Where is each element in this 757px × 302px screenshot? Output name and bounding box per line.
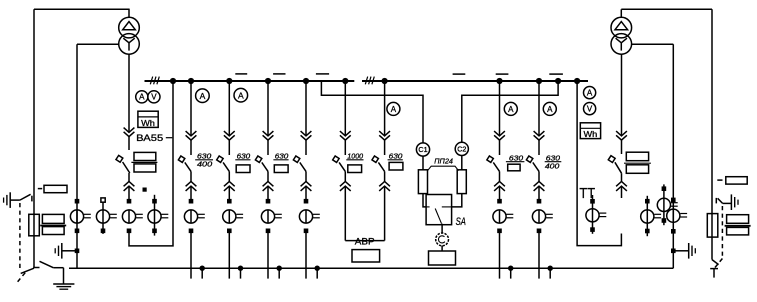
label feeder 1 630/400 [195,151,213,168]
wire feeder 3 from bus [267,81,269,136]
drawout contact top feeder 6 [379,131,390,140]
svg-text:630: 630 [389,151,404,160]
cable stub feeder 2 [238,266,243,279]
CT neutral left [70,199,90,233]
aux CT left 2 with test terminal [96,198,116,234]
wire neutral line left (x=77) [76,44,78,268]
wire feeder 7 lower stub [499,171,501,181]
wire feeder 1 to bottom bus [190,231,192,279]
voltmeter right incomer [584,103,596,115]
fuse counter C1 [416,143,429,156]
svg-text:С1: С1 [418,145,427,154]
wire bell to box [441,246,443,251]
ground left bottom [53,284,74,289]
wire feeder 7 from bus [499,81,501,136]
svg-text:A: A [508,105,514,114]
svg-text:A: A [391,105,397,114]
switch SA contacts [426,207,452,225]
svg-text:400: 400 [545,161,560,170]
bus B dot PP24 tap [555,78,561,84]
wire breaker BA55 gap [128,137,130,182]
wire feeder 8 to CT [538,186,540,201]
wire feeder 5 from bus [344,81,346,136]
wire tap bus B to C2 [462,81,558,142]
bus B dot feeder 8 [536,78,542,84]
wire feeder 1 upper stub [190,140,192,155]
bus A dot incomer return [170,78,176,84]
busbar section A [145,80,355,82]
drawout contact bottom feeder 5 [340,182,351,191]
terminal box middle [429,251,456,265]
fuse PP24 left [418,170,427,194]
aux CT right (metering) [586,195,606,234]
bus A dot feeder 1 [188,78,194,84]
svg-text:V: V [151,93,157,102]
svg-text:С2: С2 [457,145,466,154]
wire incomer right upper stub [621,140,623,154]
svg-text:A: A [200,91,206,101]
wire feeder 7 to CT [499,186,501,201]
CT feeder 1 [184,199,204,233]
wire feeder 8 from bus [538,81,540,136]
wire C1 to fuse [422,156,424,170]
disconnect switch left bottom [33,261,63,284]
wire fuse left to SA [423,194,426,207]
bell HA [436,233,449,246]
wire feeder 6 upper stub [384,140,386,155]
wire top rail left [34,8,130,10]
arrester plates left [40,214,66,234]
interlock linkage left (dashed) [18,203,26,282]
label feeder 8 630/400 [545,153,562,170]
svg-text:V: V [587,104,593,113]
wire C2 to fuse [461,156,463,171]
wire feeder 7 upper stub [499,140,501,155]
label feeder 2 630 [235,151,251,172]
ground tap left [55,243,79,259]
bus A dot feeder 4 [303,78,309,84]
transformer T2 [611,9,632,54]
busbar A overbar 3 [316,73,329,75]
drawout contact top feeder 8 [534,131,545,140]
cable stub feeder 3 [277,266,282,279]
circuit breaker feeder 8 [526,155,539,171]
drawout contact bottom feeder 4 [301,182,312,191]
wire fuse right to SA [452,194,462,207]
drawout contact bottom feeder 8 [534,182,545,191]
ammeter feeder 1 [196,89,210,103]
ammeter left incomer [136,91,148,103]
wire HV drop right [711,9,713,259]
CT feeder 7 [493,199,513,233]
drawout contact top feeder 1 [186,131,197,140]
wire feeder 4 lower stub [305,171,307,181]
bus A dot feeder 2 [226,78,232,84]
wire feeder 7 to bottom bus [499,231,501,279]
bus B dot feeder 6 [382,78,388,84]
bracket PP24 [428,166,459,171]
label plate right HV [717,177,747,184]
wire feeder 4 to bottom bus [305,231,307,279]
bus B dot incomer return [574,78,580,84]
svg-text:A: A [238,90,244,100]
wire incomer right bus return [577,81,621,246]
svg-text:Wh: Wh [584,129,598,139]
svg-text:A: A [587,88,593,97]
busbar A overbar 2 [273,73,285,75]
busbar A phase marks [150,77,159,85]
wire feeder 1 to CT [190,186,192,201]
wire incomer right tail [621,186,623,198]
drawout contact bottom feeder 1 [186,182,197,191]
interlock linkage right (dashed) [715,206,722,268]
svg-text:A: A [547,105,553,114]
wire transformer T1 secondary to neutral line [77,43,119,45]
circuit breaker BA55 [115,155,130,173]
CT feeder 8 [532,199,552,233]
cable stub feeder 4 [315,266,320,279]
wire feeder 4 from bus [305,81,307,136]
switch SA box [426,195,452,225]
wire feeder 6 lower stub [384,171,386,181]
label BA55 [136,133,172,143]
voltmeter left incomer [148,91,160,103]
label feeder 3 630 [273,151,289,172]
svg-text:630: 630 [509,153,524,162]
rating plates incomer left [131,152,157,172]
bottom neutral bus [69,267,673,269]
wire feeder 8 upper stub [538,140,540,155]
drawout contact bottom feeder 3 [263,182,274,191]
wire feeder 1 lower stub [190,171,192,181]
wire incomer right lower stub [621,173,623,181]
CT feeder 2 [223,199,243,233]
busbar B overbar 1 [453,73,466,75]
disconnect switch right bottom [710,260,718,278]
svg-text:ВА55: ВА55 [136,133,163,143]
fuse left HV [29,214,40,236]
wire feeder 2 upper stub [228,140,230,155]
drawout contact top feeder 4 [301,131,312,140]
svg-text:400: 400 [197,160,213,169]
label PP24 [434,158,453,165]
wire feeder 3 to bottom bus [267,231,269,279]
cable stub feeder 8 [548,266,553,279]
ammeter right incomer [584,87,596,99]
drawout contact bottom feeder 6 [379,182,390,191]
drawout contact top feeder 3 [263,131,274,140]
drawout contact top feeder 5 [340,131,351,140]
cable stub feeder 1 [200,266,205,279]
cable stub feeder 7 [508,266,513,279]
svg-text:A: A [139,93,145,102]
ABP relay box [352,250,380,262]
wire feeder 1 from bus [190,81,192,136]
svg-text:АВР: АВР [355,236,375,246]
mark dot incomer cell [143,188,147,192]
drawout contact top feeder 2 [224,131,235,140]
circuit breaker feeder 3 [255,155,268,171]
wire ABP link [345,186,384,241]
wire feeder 2 lower stub [228,171,230,181]
earthing blade left bottom [21,268,34,273]
label TT [579,186,595,202]
drawout contact top incomer right [616,131,627,140]
ground tap right [671,243,695,259]
label ABP [355,236,375,246]
circuit breaker feeder 1 [178,155,191,171]
svg-text:Wh: Wh [141,118,155,128]
wire SA to bell [441,225,443,233]
aux CT left (metering) [148,195,168,236]
wire T1 secondary drop [128,54,130,132]
circuit breaker feeder 6 [371,155,384,171]
ammeter feeder 7 [504,102,517,115]
busbar A overbar 1 [235,73,247,75]
label SA [456,216,466,228]
CT right c3 on neutral [667,198,687,234]
wire feeder 4 to CT [305,186,307,201]
wire feeder 3 lower stub [267,171,269,181]
wire T2 secondary drop [621,54,623,136]
label feeder 6 630 [388,151,404,170]
CT incomer left [122,199,142,233]
wire feeder 2 to CT [228,186,230,201]
circuit breaker feeder 4 [293,155,306,171]
svg-text:ПП24: ПП24 [434,158,453,165]
earthing switch left upper [4,192,32,208]
ammeter feeder 8 [543,102,556,115]
ammeter feeder 6 [387,102,400,115]
transformer T1 [119,9,140,54]
busbar section B [362,80,588,82]
wire feeder 3 to CT [267,186,269,201]
energy meter Wh right [580,123,600,139]
bus A dot feeder 5 [342,78,348,84]
wire incomer left to CT [128,186,130,201]
label feeder 7 630 [506,153,525,171]
svg-text:1000: 1000 [347,151,364,160]
circuit breaker feeder 5 [332,155,345,171]
drawout contact bottom incomer left [124,182,135,191]
wire top rail right [621,8,712,10]
rating plates incomer right [624,152,651,173]
CT feeder 3 [261,199,281,233]
wire incomer left bus return [129,81,173,246]
wire transformer T2 secondary to neutral line [631,43,673,45]
wire neutral line right (x=673) [672,44,674,268]
label plate left HV [38,185,67,192]
bus A dot feeder 3 [265,78,271,84]
wire feeder 2 from bus [228,81,230,136]
drawout contact bottom feeder 7 [494,182,505,191]
wire feeder 6 from bus [384,81,386,136]
fuse counter C2 [455,142,468,155]
arrester plates right [725,215,751,235]
wire tap bus A to C1 [321,81,423,143]
svg-text:630: 630 [237,151,251,160]
wire HV drop left [33,9,35,267]
ammeter feeder 2 [234,88,248,102]
fuse PP24 right [457,170,466,194]
wire feeder 5 upper stub [344,140,346,155]
svg-text:630: 630 [275,151,289,160]
circuit breaker feeder 7 [486,155,499,171]
wire feeder 8 to bottom bus [538,231,540,279]
label feeder 5 1000 [346,151,364,172]
earthing switch right upper [716,194,738,210]
CT right c2 [657,184,677,225]
busbar B overbar 2 [496,73,509,75]
drawout contact top feeder 7 [494,131,505,140]
circuit breaker feeder 2 [216,155,229,171]
fuse right HV [707,214,718,238]
bus B dot feeder 7 [496,78,502,84]
drawout contact top incomer left [124,128,135,137]
drawout contact bottom incomer right [616,182,627,191]
wire feeder 8 lower stub [538,171,540,181]
energy meter Wh left [138,111,158,128]
wire feeder 2 to bottom bus [228,231,230,279]
busbar B phase marks [365,77,374,85]
circuit breaker incomer right [608,155,622,173]
drawout contact bottom feeder 2 [224,182,235,191]
wire feeder 4 upper stub [305,140,307,155]
wire feeder 5 lower stub [344,171,346,181]
CT right c1 [641,196,661,236]
wire feeder 3 upper stub [267,140,269,155]
CT feeder 4 [299,199,319,233]
busbar B overbar 3 [549,73,563,75]
svg-text:SA: SA [456,216,466,228]
